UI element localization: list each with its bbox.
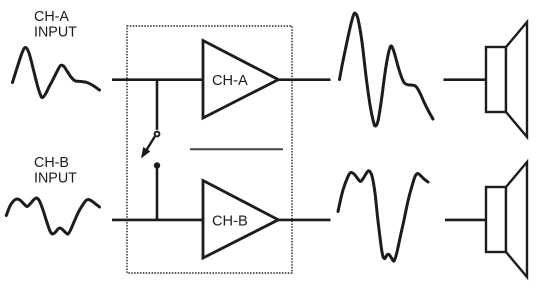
svg-text:CH-A: CH-A [34,9,69,25]
wire CH-A line to speaker [444,78,487,81]
waveform CH-A output signal [340,13,434,126]
wire CH-B input line [112,219,203,222]
waveform CH-A input signal [13,48,100,98]
switch S1 wiper arrow [141,137,155,159]
wire CH-B line to speaker [445,219,486,222]
speaker A [486,22,527,137]
amplifier CH-B [203,181,278,259]
svg-text:CH-B: CH-B [34,155,69,171]
wire CH-A input line [112,78,203,81]
svg-text:CH-B: CH-B [212,214,248,230]
wire CH-B output line [278,219,331,222]
separator line between amplifiers [190,148,283,150]
waveform CH-B input signal [6,198,99,234]
svg-text:INPUT: INPUT [34,24,77,40]
svg-text:CH-A: CH-A [212,73,248,89]
speaker B [486,162,527,277]
switch S1 open contact (circle) [155,132,160,137]
wire switch to CH-B line [156,166,159,220]
dashed selector box [127,26,292,273]
amplifier CH-A [203,41,278,119]
svg-text:INPUT: INPUT [34,170,77,186]
waveform CH-B output signal [338,171,428,261]
wire CH-A output line [278,78,331,81]
switch S1 closed contact (dot) [154,162,160,168]
wire switch drop from CH-A line (node junction) [156,80,159,130]
